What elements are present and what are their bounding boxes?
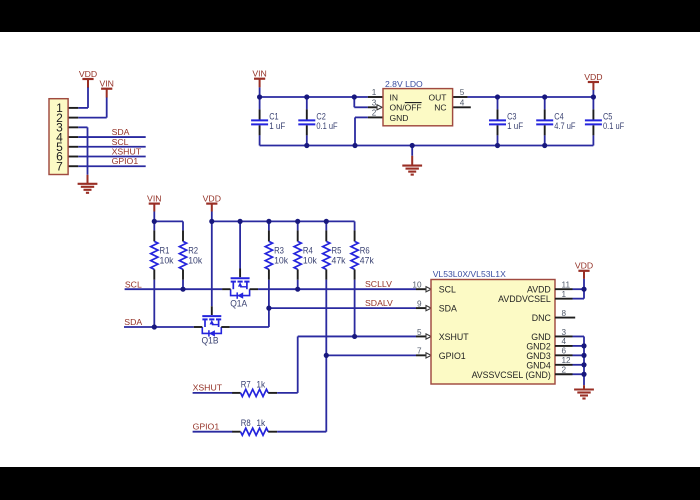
svg-text:7: 7	[417, 347, 422, 356]
svg-text:4: 4	[562, 337, 567, 346]
svg-text:R7: R7	[241, 379, 251, 389]
svg-text:VIN: VIN	[252, 69, 266, 79]
svg-text:1k: 1k	[256, 418, 265, 428]
svg-text:DNC: DNC	[532, 313, 552, 323]
svg-text:SCL: SCL	[125, 279, 142, 289]
svg-text:VIN: VIN	[99, 79, 113, 89]
svg-text:GPIO1: GPIO1	[112, 156, 139, 166]
svg-text:XSHUT: XSHUT	[193, 383, 223, 393]
svg-text:R1: R1	[160, 246, 170, 256]
svg-text:2: 2	[372, 109, 377, 118]
svg-text:1 uF: 1 uF	[507, 121, 524, 131]
svg-text:XSHUT: XSHUT	[439, 332, 469, 342]
svg-text:8: 8	[562, 309, 567, 318]
svg-text:2: 2	[562, 366, 567, 375]
svg-text:SDALV: SDALV	[365, 298, 393, 308]
svg-text:C2: C2	[316, 112, 325, 122]
svg-text:VL53L0X/VL53L1X: VL53L0X/VL53L1X	[433, 269, 506, 279]
svg-text:GPIO1: GPIO1	[193, 422, 220, 432]
svg-text:C1: C1	[269, 112, 278, 122]
svg-text:SCL: SCL	[112, 137, 129, 147]
svg-text:GND: GND	[390, 113, 409, 123]
svg-text:5: 5	[417, 328, 422, 337]
svg-text:1: 1	[372, 88, 377, 97]
svg-text:GPIO1: GPIO1	[439, 351, 466, 361]
svg-text:C5: C5	[603, 112, 612, 122]
svg-text:OUT: OUT	[429, 92, 447, 102]
svg-text:4.7 uF: 4.7 uF	[554, 121, 576, 131]
svg-text:R4: R4	[303, 246, 313, 256]
svg-text:10k: 10k	[303, 255, 317, 265]
svg-text:ON/OFF: ON/OFF	[390, 103, 422, 113]
svg-text:4: 4	[460, 99, 465, 108]
svg-text:NC: NC	[434, 103, 446, 113]
svg-text:R2: R2	[188, 246, 198, 256]
svg-text:VDD: VDD	[584, 72, 602, 82]
svg-text:9: 9	[417, 299, 422, 308]
svg-text:7: 7	[56, 159, 63, 173]
svg-text:SDA: SDA	[112, 127, 130, 137]
svg-text:11: 11	[562, 281, 571, 290]
svg-text:SCL: SCL	[439, 285, 456, 295]
svg-text:10: 10	[412, 281, 422, 290]
svg-text:47k: 47k	[360, 255, 374, 265]
svg-text:C4: C4	[554, 112, 563, 122]
svg-text:10k: 10k	[160, 255, 174, 265]
svg-text:XSHUT: XSHUT	[112, 147, 142, 157]
svg-text:SDA: SDA	[124, 317, 142, 327]
svg-text:Q1B: Q1B	[202, 336, 219, 346]
svg-text:VDD: VDD	[203, 193, 221, 203]
svg-text:SCLLV: SCLLV	[365, 279, 392, 289]
svg-text:Q1A: Q1A	[230, 298, 247, 308]
svg-text:3: 3	[372, 99, 377, 108]
svg-text:VIN: VIN	[147, 193, 161, 203]
svg-text:1k: 1k	[256, 379, 265, 389]
svg-text:0.1 uF: 0.1 uF	[603, 121, 625, 131]
svg-text:6: 6	[562, 347, 567, 356]
svg-text:0.1 uF: 0.1 uF	[316, 121, 338, 131]
svg-text:SDA: SDA	[439, 304, 457, 314]
svg-text:1 uF: 1 uF	[269, 121, 286, 131]
svg-text:IN: IN	[390, 92, 399, 102]
svg-text:R3: R3	[274, 246, 284, 256]
svg-text:AVDDVCSEL: AVDDVCSEL	[498, 294, 551, 304]
svg-text:2.8V LDO: 2.8V LDO	[385, 79, 423, 89]
svg-text:C3: C3	[507, 112, 516, 122]
svg-text:R6: R6	[360, 246, 370, 256]
svg-text:12: 12	[562, 356, 572, 365]
svg-text:VDD: VDD	[79, 69, 97, 79]
svg-text:R5: R5	[332, 246, 342, 256]
svg-text:1: 1	[562, 290, 567, 299]
svg-text:10k: 10k	[188, 255, 202, 265]
svg-text:AVSSVCSEL (GND): AVSSVCSEL (GND)	[472, 370, 551, 380]
svg-text:R8: R8	[241, 418, 251, 428]
svg-text:10k: 10k	[274, 255, 288, 265]
svg-text:VDD: VDD	[575, 261, 593, 271]
svg-text:5: 5	[460, 88, 465, 97]
svg-text:3: 3	[562, 328, 567, 337]
svg-text:47k: 47k	[332, 255, 346, 265]
